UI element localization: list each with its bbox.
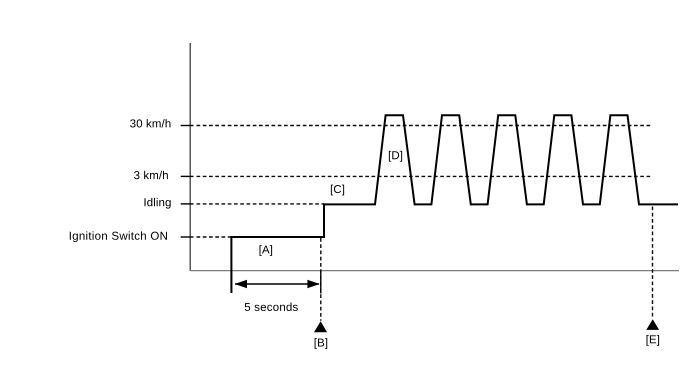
label [A] (259, 245, 272, 256)
label 5 seconds (245, 303, 298, 311)
label [D] (389, 151, 402, 162)
tick 30 km/h (181, 125, 194, 127)
dashed level line 3 km/h (197, 175, 653, 177)
label [C] (331, 185, 344, 196)
label [B] (315, 338, 328, 349)
arrowhead right (307, 280, 319, 288)
label Ignition Switch ON (70, 231, 167, 242)
y-axis (189, 43, 191, 271)
solid terminator segment on marker line B (320, 271, 322, 294)
dashed level line Ignition Switch ON (197, 236, 232, 238)
label 30 km/h (130, 119, 170, 127)
dashed level line 30 km/h (197, 125, 653, 127)
tick Ignition Switch ON (181, 236, 194, 238)
label Idling (144, 198, 170, 209)
dashed level line Idling (197, 203, 325, 205)
label 3 km/h (134, 171, 168, 179)
marker triangle E (646, 319, 659, 330)
drive pattern trace (231, 115, 678, 293)
tick Idling (181, 203, 194, 205)
marker triangle B (314, 321, 327, 332)
tick 3 km/h (181, 175, 194, 177)
arrowhead left (235, 280, 247, 288)
dashed marker line B (320, 238, 322, 321)
label [E] (646, 335, 659, 346)
dimension extension line at x=231 (230, 271, 232, 293)
dashed marker line E (652, 207, 654, 319)
x-axis (190, 270, 679, 272)
5 seconds dimension arrow shaft (235, 283, 319, 285)
